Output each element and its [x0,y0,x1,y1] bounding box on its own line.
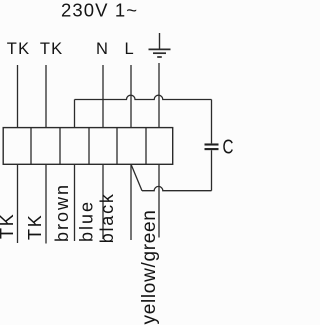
svg-text:black: black [97,192,117,243]
svg-text:yellow/green: yellow/green [139,209,160,324]
wire capacitor top lead [211,100,213,144]
svg-text:TK: TK [7,40,30,58]
wire TK1 bottom [17,164,19,243]
wire yellow/green [158,164,160,237]
svg-text:blue: blue [77,200,97,242]
terminal block [3,128,173,165]
terminal divider 1 [30,128,32,165]
terminal divider 5 [145,128,147,165]
wire diagonal from L terminal to capacitor return [131,164,142,190]
ground [149,33,171,57]
terminal divider 4 [116,128,118,165]
svg-text:TK: TK [25,213,45,240]
terminal divider 2 [59,128,61,165]
svg-text:TK: TK [40,40,63,58]
wire ground lead [158,63,160,128]
terminal divider 3 [88,128,90,165]
svg-text:brown: brown [52,183,72,242]
wire blue [102,164,104,239]
wire N [102,65,104,128]
svg-text:TK: TK [0,212,17,239]
svg-text:C: C [223,135,234,158]
svg-text:230V 1~: 230V 1~ [61,0,138,21]
wire TK2 bottom [45,164,47,243]
wire brown [74,164,76,241]
capacitor C [205,145,219,150]
wire black [130,164,132,240]
svg-text:N: N [96,40,108,58]
wire capacitor return with hop over yellow/green [142,186,212,190]
wire TK2 top [45,65,47,128]
wire capacitor branch left drop into terminal 3 [74,100,76,128]
wire capacitor branch horizontal with hops over L and ground [75,95,212,99]
wire TK1 top [17,65,19,128]
svg-text:L: L [125,40,134,58]
wire L [130,65,132,128]
wire capacitor bottom lead [211,150,213,191]
